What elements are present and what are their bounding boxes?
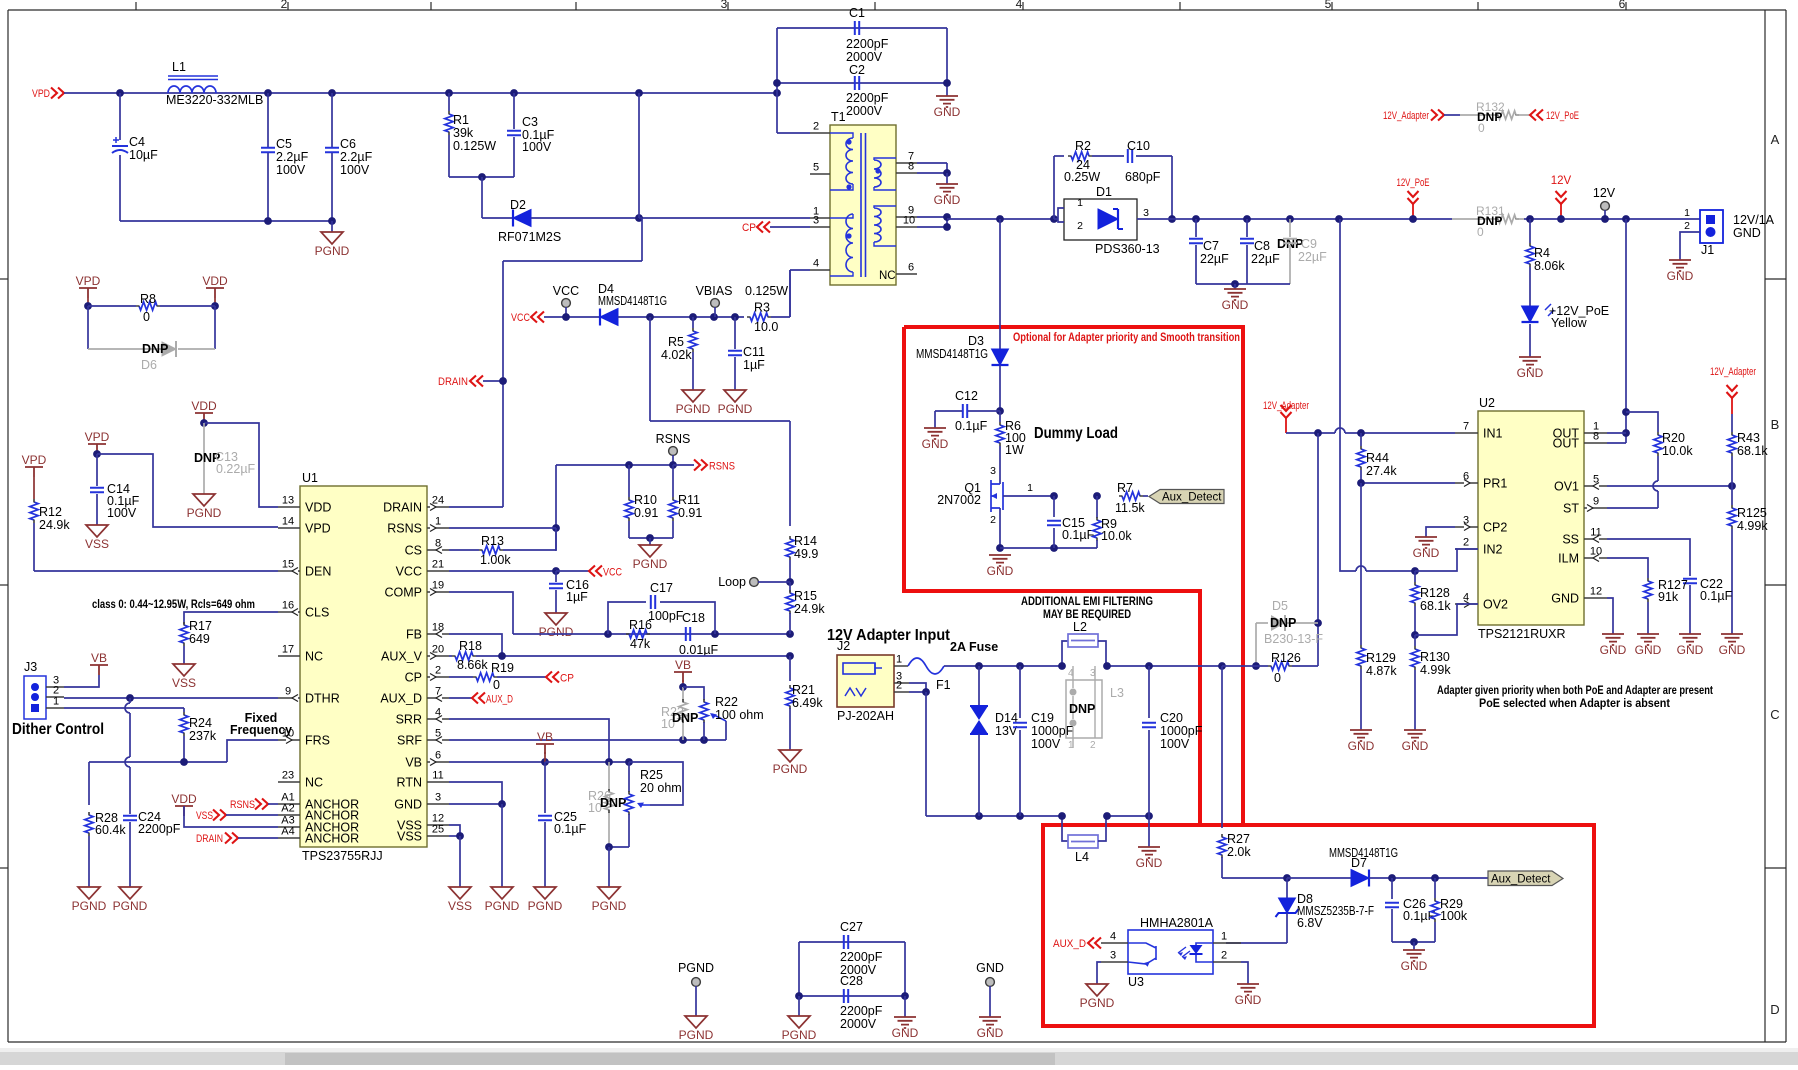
svg-text:C6: C6 bbox=[340, 137, 356, 151]
svg-text:3: 3 bbox=[813, 215, 819, 227]
svg-text:ST: ST bbox=[1563, 502, 1579, 516]
svg-text:C5: C5 bbox=[276, 137, 292, 151]
svg-text:12: 12 bbox=[1590, 586, 1602, 598]
svg-text:12V/1A: 12V/1A bbox=[1733, 213, 1775, 227]
svg-text:2.0k: 2.0k bbox=[1227, 845, 1251, 859]
svg-text:4.99k: 4.99k bbox=[1420, 663, 1451, 677]
svg-text:2.2µF: 2.2µF bbox=[340, 150, 373, 164]
svg-text:8: 8 bbox=[1593, 431, 1599, 443]
svg-text:D6: D6 bbox=[141, 358, 157, 372]
svg-text:9: 9 bbox=[285, 686, 291, 698]
svg-text:VCC: VCC bbox=[396, 565, 422, 579]
svg-text:VSS: VSS bbox=[172, 676, 196, 690]
svg-text:1: 1 bbox=[1221, 931, 1227, 943]
svg-text:A2: A2 bbox=[281, 803, 294, 815]
svg-text:GND: GND bbox=[1719, 643, 1746, 657]
svg-text:CP2: CP2 bbox=[1483, 521, 1507, 535]
svg-text:2: 2 bbox=[1090, 740, 1096, 751]
svg-text:649: 649 bbox=[189, 632, 210, 646]
svg-text:DRAIN: DRAIN bbox=[196, 833, 223, 845]
svg-text:GND: GND bbox=[1551, 592, 1579, 606]
svg-text:23: 23 bbox=[282, 770, 294, 782]
svg-text:Adapter given priority when bo: Adapter given priority when both PoE and… bbox=[1437, 683, 1713, 697]
svg-text:22µF: 22µF bbox=[1298, 250, 1327, 264]
svg-text:0.125W: 0.125W bbox=[453, 139, 496, 153]
svg-text:VB: VB bbox=[537, 730, 553, 744]
svg-text:Loop: Loop bbox=[718, 575, 746, 589]
svg-text:IN1: IN1 bbox=[1483, 427, 1503, 441]
svg-text:4: 4 bbox=[813, 258, 819, 270]
svg-text:3: 3 bbox=[721, 0, 728, 11]
svg-text:2: 2 bbox=[1463, 537, 1469, 549]
svg-text:PGND: PGND bbox=[592, 899, 627, 913]
svg-text:CP: CP bbox=[560, 673, 574, 685]
svg-text:R19: R19 bbox=[491, 661, 514, 675]
svg-text:2: 2 bbox=[1684, 220, 1690, 232]
svg-text:2.2µF: 2.2µF bbox=[276, 150, 309, 164]
svg-text:0.01µF: 0.01µF bbox=[679, 643, 719, 657]
svg-text:11: 11 bbox=[432, 770, 443, 782]
svg-text:VSS: VSS bbox=[85, 537, 109, 551]
svg-text:3: 3 bbox=[1090, 668, 1096, 679]
svg-text:R128: R128 bbox=[1420, 586, 1450, 600]
svg-text:10: 10 bbox=[903, 215, 915, 227]
svg-text:GND: GND bbox=[934, 193, 961, 207]
svg-text:VB: VB bbox=[675, 658, 691, 672]
svg-text:C9: C9 bbox=[1301, 237, 1317, 251]
svg-text:HMHA2801A: HMHA2801A bbox=[1140, 916, 1214, 930]
svg-text:12V: 12V bbox=[1593, 186, 1616, 200]
svg-text:VPD: VPD bbox=[305, 522, 331, 536]
svg-text:GND: GND bbox=[892, 1026, 919, 1040]
svg-text:3: 3 bbox=[1110, 950, 1116, 962]
svg-text:A: A bbox=[1771, 132, 1780, 147]
svg-text:PGND: PGND bbox=[113, 899, 148, 913]
svg-text:C7: C7 bbox=[1203, 239, 1219, 253]
svg-text:1W: 1W bbox=[1005, 443, 1024, 457]
svg-text:49.9: 49.9 bbox=[794, 547, 818, 561]
svg-text:TPS2121RUXR: TPS2121RUXR bbox=[1478, 627, 1566, 641]
svg-text:CS: CS bbox=[405, 544, 422, 558]
svg-text:J3: J3 bbox=[24, 660, 37, 674]
svg-text:DNP: DNP bbox=[1069, 702, 1095, 716]
svg-text:25: 25 bbox=[432, 824, 444, 836]
svg-text:GND: GND bbox=[1600, 643, 1627, 657]
svg-text:DEN: DEN bbox=[305, 565, 331, 579]
svg-text:U2: U2 bbox=[1479, 396, 1495, 410]
svg-text:VCC: VCC bbox=[553, 284, 579, 298]
svg-text:C27: C27 bbox=[840, 920, 863, 934]
svg-text:VSS: VSS bbox=[397, 830, 422, 844]
svg-text:R129: R129 bbox=[1366, 651, 1396, 665]
svg-text:100V: 100V bbox=[107, 506, 137, 520]
svg-text:1µF: 1µF bbox=[566, 590, 588, 604]
svg-text:SS: SS bbox=[1562, 533, 1579, 547]
svg-text:MAY BE REQUIRED: MAY BE REQUIRED bbox=[1043, 607, 1131, 621]
svg-text:2200pF: 2200pF bbox=[846, 37, 889, 51]
svg-text:C20: C20 bbox=[1160, 711, 1183, 725]
svg-text:OV2: OV2 bbox=[1483, 598, 1508, 612]
svg-text:0.1µF: 0.1µF bbox=[1700, 589, 1733, 603]
svg-text:PGND: PGND bbox=[633, 557, 668, 571]
svg-text:R8: R8 bbox=[140, 292, 156, 306]
svg-text:DTHR: DTHR bbox=[305, 692, 340, 706]
svg-text:F1: F1 bbox=[936, 678, 951, 692]
svg-text:2: 2 bbox=[990, 514, 996, 526]
svg-text:PGND: PGND bbox=[315, 244, 350, 258]
svg-text:NC: NC bbox=[305, 776, 323, 790]
svg-text:R12: R12 bbox=[39, 505, 62, 519]
svg-text:B: B bbox=[1771, 417, 1780, 432]
svg-text:1: 1 bbox=[1077, 197, 1083, 209]
svg-text:OV1: OV1 bbox=[1554, 480, 1579, 494]
svg-text:DNP: DNP bbox=[600, 796, 626, 810]
svg-text:VPD: VPD bbox=[76, 274, 101, 288]
svg-text:GND: GND bbox=[1635, 643, 1662, 657]
svg-text:2000V: 2000V bbox=[840, 1017, 877, 1031]
svg-text:GND: GND bbox=[1413, 546, 1440, 560]
svg-text:0: 0 bbox=[1477, 225, 1484, 239]
svg-text:T1: T1 bbox=[831, 110, 846, 124]
svg-text:27.4k: 27.4k bbox=[1366, 464, 1397, 478]
svg-text:4.99k: 4.99k bbox=[1737, 519, 1768, 533]
svg-text:68.1k: 68.1k bbox=[1420, 599, 1451, 613]
svg-text:0.25W: 0.25W bbox=[1064, 170, 1100, 184]
svg-text:C8: C8 bbox=[1254, 239, 1270, 253]
svg-text:CLS: CLS bbox=[305, 606, 329, 620]
svg-text:8.66k: 8.66k bbox=[457, 658, 488, 672]
svg-text:1: 1 bbox=[1027, 482, 1033, 494]
svg-text:19: 19 bbox=[432, 580, 444, 592]
svg-text:GND: GND bbox=[1402, 739, 1429, 753]
svg-text:R43: R43 bbox=[1737, 431, 1760, 445]
svg-text:DRAIN: DRAIN bbox=[383, 501, 422, 515]
svg-text:R22: R22 bbox=[715, 695, 738, 709]
svg-text:PGND: PGND bbox=[679, 1028, 714, 1042]
svg-text:GND: GND bbox=[1517, 366, 1544, 380]
svg-text:FB: FB bbox=[406, 628, 422, 642]
svg-text:U1: U1 bbox=[302, 471, 318, 485]
svg-text:4: 4 bbox=[1110, 931, 1116, 943]
svg-text:9: 9 bbox=[1593, 496, 1599, 508]
svg-text:GND: GND bbox=[394, 798, 422, 812]
svg-text:2: 2 bbox=[281, 0, 288, 11]
svg-text:L4: L4 bbox=[1075, 850, 1089, 864]
svg-text:NC: NC bbox=[879, 270, 896, 282]
svg-text:100V: 100V bbox=[340, 163, 370, 177]
svg-text:VPD: VPD bbox=[22, 453, 47, 467]
svg-text:PGND: PGND bbox=[678, 961, 714, 975]
svg-text:20 ohm: 20 ohm bbox=[640, 781, 682, 795]
svg-text:D3: D3 bbox=[968, 334, 984, 348]
svg-text:GND: GND bbox=[1348, 739, 1375, 753]
svg-text:ADDITIONAL EMI FILTERING: ADDITIONAL EMI FILTERING bbox=[1021, 594, 1153, 608]
svg-text:R21: R21 bbox=[792, 683, 815, 697]
svg-text:0.1µF: 0.1µF bbox=[554, 822, 587, 836]
svg-text:RTN: RTN bbox=[397, 776, 422, 790]
svg-text:NC: NC bbox=[305, 650, 323, 664]
svg-text:R15: R15 bbox=[794, 589, 817, 603]
svg-text:2200pF: 2200pF bbox=[840, 1004, 883, 1018]
svg-text:ILM: ILM bbox=[1558, 552, 1579, 566]
svg-text:4: 4 bbox=[1068, 668, 1074, 679]
svg-text:GND: GND bbox=[987, 564, 1014, 578]
svg-text:SRR: SRR bbox=[396, 713, 422, 727]
svg-text:1: 1 bbox=[435, 516, 441, 528]
svg-text:20: 20 bbox=[432, 644, 444, 656]
svg-text:1: 1 bbox=[1068, 740, 1074, 751]
svg-text:VDD: VDD bbox=[202, 274, 228, 288]
svg-text:AUX_D: AUX_D bbox=[486, 694, 513, 706]
svg-text:VDD: VDD bbox=[171, 792, 197, 806]
svg-text:A4: A4 bbox=[281, 826, 294, 838]
svg-text:C2: C2 bbox=[849, 63, 865, 77]
svg-text:R125: R125 bbox=[1737, 506, 1767, 520]
svg-text:100k: 100k bbox=[1440, 909, 1468, 923]
svg-text:L3: L3 bbox=[1110, 686, 1124, 700]
svg-text:R7: R7 bbox=[1117, 481, 1133, 495]
svg-text:0.1µF: 0.1µF bbox=[955, 419, 988, 433]
svg-text:PGND: PGND bbox=[676, 402, 711, 416]
svg-text:PoE selected when Adapter is a: PoE selected when Adapter is absent bbox=[1479, 696, 1670, 710]
svg-text:VB: VB bbox=[91, 651, 107, 665]
svg-text:14: 14 bbox=[282, 516, 294, 528]
svg-text:GND: GND bbox=[934, 105, 961, 119]
svg-text:VBIAS: VBIAS bbox=[696, 284, 733, 298]
svg-text:0.125W: 0.125W bbox=[745, 284, 788, 298]
svg-text:class 0: 0.44~12.95W, Rcls=649: class 0: 0.44~12.95W, Rcls=649 ohm bbox=[92, 599, 255, 611]
svg-text:MMSD4148T1G: MMSD4148T1G bbox=[916, 347, 988, 361]
svg-text:B230-13-F: B230-13-F bbox=[1264, 632, 1323, 646]
svg-text:4: 4 bbox=[1016, 0, 1023, 11]
svg-text:R13: R13 bbox=[481, 534, 504, 548]
svg-text:22µF: 22µF bbox=[1200, 252, 1229, 266]
svg-text:R44: R44 bbox=[1366, 451, 1389, 465]
svg-text:ME3220-332MLB: ME3220-332MLB bbox=[166, 93, 263, 107]
svg-text:C10: C10 bbox=[1127, 139, 1150, 153]
svg-text:PGND: PGND bbox=[718, 402, 753, 416]
svg-text:2: 2 bbox=[1221, 950, 1227, 962]
svg-text:2N7002: 2N7002 bbox=[937, 493, 981, 507]
svg-text:R17: R17 bbox=[189, 619, 212, 633]
svg-text:237k: 237k bbox=[189, 729, 217, 743]
svg-text:R24: R24 bbox=[189, 716, 212, 730]
svg-text:D5: D5 bbox=[1272, 599, 1288, 613]
svg-text:6: 6 bbox=[435, 750, 441, 762]
svg-text:COMP: COMP bbox=[385, 586, 423, 600]
svg-text:680pF: 680pF bbox=[1125, 170, 1161, 184]
svg-text:VDD: VDD bbox=[191, 399, 217, 413]
svg-text:CP: CP bbox=[742, 222, 756, 234]
svg-text:Aux_Detect: Aux_Detect bbox=[1491, 874, 1551, 886]
svg-text:GND: GND bbox=[1235, 993, 1262, 1007]
svg-text:2: 2 bbox=[813, 121, 819, 133]
svg-text:100V: 100V bbox=[1160, 737, 1190, 751]
svg-text:GND: GND bbox=[1401, 959, 1428, 973]
svg-text:R11: R11 bbox=[678, 493, 700, 507]
svg-text:MMSD4148T1G: MMSD4148T1G bbox=[598, 294, 667, 308]
svg-text:RSNS: RSNS bbox=[387, 522, 422, 536]
svg-text:24.9k: 24.9k bbox=[794, 602, 825, 616]
svg-text:39k: 39k bbox=[453, 126, 474, 140]
svg-text:R25: R25 bbox=[640, 768, 663, 782]
svg-text:MMSD4148T1G: MMSD4148T1G bbox=[1329, 846, 1398, 860]
svg-text:10.0k: 10.0k bbox=[1101, 529, 1132, 543]
svg-text:C12: C12 bbox=[955, 389, 978, 403]
svg-text:PGND: PGND bbox=[187, 506, 222, 520]
svg-text:RSNS: RSNS bbox=[656, 432, 691, 446]
svg-text:GND: GND bbox=[977, 1026, 1004, 1040]
svg-text:3: 3 bbox=[1143, 207, 1149, 219]
svg-text:PGND: PGND bbox=[782, 1028, 817, 1042]
svg-text:D2: D2 bbox=[510, 198, 526, 212]
svg-text:1: 1 bbox=[53, 696, 59, 708]
svg-text:L1: L1 bbox=[172, 60, 186, 74]
svg-text:Dither Control: Dither Control bbox=[12, 721, 104, 738]
svg-text:SRF: SRF bbox=[397, 734, 422, 748]
svg-text:U3: U3 bbox=[1128, 975, 1144, 989]
svg-text:0.1µF: 0.1µF bbox=[1062, 528, 1095, 542]
svg-text:C1: C1 bbox=[849, 6, 865, 20]
svg-text:R1: R1 bbox=[453, 113, 469, 127]
svg-text:1000pF: 1000pF bbox=[1160, 724, 1203, 738]
svg-text:PGND: PGND bbox=[485, 899, 520, 913]
svg-text:C28: C28 bbox=[840, 974, 863, 988]
svg-text:TPS23755RJJ: TPS23755RJJ bbox=[302, 849, 383, 863]
svg-text:21: 21 bbox=[432, 559, 444, 571]
svg-text:R10: R10 bbox=[634, 493, 657, 507]
svg-text:ANCHOR: ANCHOR bbox=[305, 832, 359, 846]
svg-text:AUX_V: AUX_V bbox=[381, 650, 423, 664]
svg-text:24: 24 bbox=[432, 495, 444, 507]
svg-text:2200pF: 2200pF bbox=[846, 91, 889, 105]
svg-text:3: 3 bbox=[990, 465, 996, 477]
svg-text:PGND: PGND bbox=[528, 899, 563, 913]
svg-text:OUT: OUT bbox=[1553, 437, 1580, 451]
svg-text:7: 7 bbox=[1463, 421, 1469, 433]
svg-text:C11: C11 bbox=[743, 345, 765, 359]
svg-text:12V_Adapter: 12V_Adapter bbox=[1710, 366, 1756, 378]
svg-text:8: 8 bbox=[908, 161, 914, 173]
svg-text:0: 0 bbox=[493, 678, 500, 692]
svg-text:1.00k: 1.00k bbox=[480, 553, 511, 567]
svg-text:0: 0 bbox=[1478, 121, 1485, 135]
svg-text:FRS: FRS bbox=[305, 734, 330, 748]
svg-text:5: 5 bbox=[1325, 0, 1332, 11]
svg-text:10.0k: 10.0k bbox=[1662, 444, 1693, 458]
svg-text:6: 6 bbox=[1619, 0, 1626, 11]
svg-text:2000V: 2000V bbox=[846, 104, 883, 118]
svg-text:VPD: VPD bbox=[32, 88, 50, 100]
svg-text:0: 0 bbox=[143, 310, 150, 324]
svg-text:5: 5 bbox=[813, 162, 819, 174]
svg-text:J2: J2 bbox=[837, 639, 850, 653]
svg-text:100V: 100V bbox=[1031, 737, 1061, 751]
svg-text:2A Fuse: 2A Fuse bbox=[950, 640, 998, 654]
svg-text:1: 1 bbox=[1684, 207, 1690, 219]
svg-text:2200pF: 2200pF bbox=[138, 822, 181, 836]
svg-text:0.91: 0.91 bbox=[678, 506, 702, 520]
svg-text:DNP: DNP bbox=[1270, 616, 1296, 630]
svg-text:GND: GND bbox=[1222, 298, 1249, 312]
svg-text:D: D bbox=[1770, 1002, 1779, 1017]
svg-text:R130: R130 bbox=[1420, 650, 1450, 664]
svg-text:DNP: DNP bbox=[672, 711, 698, 725]
svg-text:12V_PoE: 12V_PoE bbox=[1546, 110, 1579, 122]
svg-text:1000pF: 1000pF bbox=[1031, 724, 1074, 738]
svg-text:12V_Adapter: 12V_Adapter bbox=[1383, 110, 1429, 122]
svg-text:0.91: 0.91 bbox=[634, 506, 658, 520]
svg-text:2200pF: 2200pF bbox=[840, 950, 883, 964]
svg-text:PGND: PGND bbox=[539, 625, 574, 639]
svg-text:100pF: 100pF bbox=[648, 609, 684, 623]
svg-text:GND: GND bbox=[976, 961, 1004, 975]
svg-text:16: 16 bbox=[282, 600, 294, 612]
svg-text:12V: 12V bbox=[1551, 175, 1572, 187]
svg-text:R14: R14 bbox=[794, 534, 817, 548]
svg-text:C17: C17 bbox=[650, 581, 673, 595]
svg-text:R126: R126 bbox=[1271, 651, 1301, 665]
svg-text:0.22µF: 0.22µF bbox=[216, 462, 256, 476]
svg-text:17: 17 bbox=[282, 644, 294, 656]
svg-text:100V: 100V bbox=[276, 163, 306, 177]
svg-text:VCC: VCC bbox=[603, 567, 622, 579]
svg-text:6.8V: 6.8V bbox=[1297, 916, 1323, 930]
svg-text:PGND: PGND bbox=[1080, 996, 1115, 1010]
svg-text:PJ-202AH: PJ-202AH bbox=[837, 709, 894, 723]
svg-text:GND: GND bbox=[1677, 643, 1704, 657]
svg-text:Frequency: Frequency bbox=[230, 723, 292, 737]
svg-text:4.02k: 4.02k bbox=[661, 348, 692, 362]
svg-text:10µF: 10µF bbox=[129, 148, 158, 162]
svg-text:AUX_D: AUX_D bbox=[380, 692, 422, 706]
svg-text:VCC: VCC bbox=[511, 312, 530, 324]
svg-text:0: 0 bbox=[1274, 671, 1281, 685]
svg-text:15: 15 bbox=[282, 559, 294, 571]
svg-text:68.1k: 68.1k bbox=[1737, 444, 1768, 458]
svg-text:C18: C18 bbox=[682, 611, 705, 625]
svg-text:RF071M2S: RF071M2S bbox=[498, 230, 561, 244]
svg-text:Aux_Detect: Aux_Detect bbox=[1162, 492, 1222, 504]
svg-text:Optional for Adapter priority: Optional for Adapter priority and Smooth… bbox=[1013, 330, 1240, 344]
svg-text:12V_PoE: 12V_PoE bbox=[1397, 177, 1430, 189]
svg-text:GND: GND bbox=[1667, 269, 1694, 283]
svg-text:1: 1 bbox=[896, 654, 902, 666]
svg-text:R4: R4 bbox=[1534, 246, 1550, 260]
svg-text:R5: R5 bbox=[668, 335, 684, 349]
svg-text:60.4k: 60.4k bbox=[95, 823, 126, 837]
svg-text:100 ohm: 100 ohm bbox=[715, 708, 764, 722]
svg-text:VB: VB bbox=[405, 756, 422, 770]
svg-text:2: 2 bbox=[435, 665, 441, 677]
svg-text:L2: L2 bbox=[1073, 620, 1087, 634]
svg-text:24.9k: 24.9k bbox=[39, 518, 70, 532]
svg-text:2: 2 bbox=[1077, 220, 1083, 232]
svg-text:13: 13 bbox=[282, 495, 294, 507]
svg-text:2000V: 2000V bbox=[846, 50, 883, 64]
svg-text:R20: R20 bbox=[1662, 431, 1685, 445]
svg-text:GND: GND bbox=[1733, 226, 1761, 240]
svg-text:3: 3 bbox=[435, 792, 441, 804]
svg-text:2: 2 bbox=[896, 680, 902, 692]
svg-text:RSNS: RSNS bbox=[230, 799, 255, 811]
svg-text:8.06k: 8.06k bbox=[1534, 259, 1565, 273]
svg-text:C3: C3 bbox=[522, 115, 538, 129]
svg-text:Dummy Load: Dummy Load bbox=[1034, 425, 1118, 442]
svg-text:PGND: PGND bbox=[773, 762, 808, 776]
svg-text:R3: R3 bbox=[754, 301, 770, 315]
svg-text:6.49k: 6.49k bbox=[792, 696, 823, 710]
